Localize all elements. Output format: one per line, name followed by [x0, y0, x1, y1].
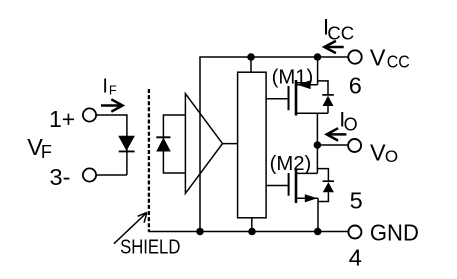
svg-text:5: 5: [350, 188, 363, 214]
transistor M2 (N-channel MOSFET): [266, 168, 318, 231]
transistor M1 (P-channel MOSFET): [266, 57, 328, 116]
svg-text:CC: CC: [387, 51, 410, 71]
wire driver bottom stub: [251, 218, 253, 232]
svg-text:V: V: [370, 45, 386, 71]
svg-text:(M1): (M1): [272, 66, 314, 88]
wire VCC left drop (crosses amplifier): [199, 57, 201, 232]
arrow ICC (supply current): [324, 41, 343, 53]
wire pin1 to LED anode: [96, 114, 127, 116]
svg-text:I: I: [102, 76, 108, 98]
LED D1 (input LED): [119, 136, 135, 151]
node junction VO: [314, 141, 322, 149]
node junction GND / driver: [248, 228, 256, 236]
svg-text:F: F: [109, 82, 117, 97]
svg-text:3-: 3-: [50, 164, 71, 190]
arrow IF (input current): [101, 99, 123, 111]
svg-text:O: O: [344, 114, 358, 134]
svg-text:CC: CC: [327, 23, 354, 43]
node junction top rail / driver: [247, 53, 255, 61]
wire M1 drain to VO node: [316, 113, 318, 145]
svg-text:F: F: [41, 142, 52, 162]
wire bottom GND rail: [148, 231, 348, 233]
terminal VCC: [348, 50, 361, 63]
wire amp output to driver: [222, 143, 238, 145]
wire VO node to terminal: [317, 144, 348, 146]
svg-text:1+: 1+: [49, 106, 75, 132]
wire pin3 to LED cathode: [96, 174, 127, 176]
node junction GND / shield drop: [196, 228, 204, 236]
arrow to shield: [114, 213, 147, 244]
svg-text:(M2): (M2): [270, 153, 312, 175]
wire driver top stub: [250, 57, 252, 72]
terminal GND: [348, 226, 361, 239]
svg-text:O: O: [385, 147, 398, 166]
arrow IO (output current): [327, 128, 347, 140]
wire VO node to M2 drain: [316, 145, 318, 173]
svg-text:SHIELD: SHIELD: [120, 237, 180, 259]
wire LED vertical: [126, 114, 128, 175]
svg-text:4: 4: [349, 244, 362, 270]
svg-text:6: 6: [349, 73, 362, 99]
node junction top rail / M1: [314, 53, 322, 61]
pin 1 terminal circle: [83, 108, 96, 121]
diode D4 (M2 body diode): [317, 169, 334, 202]
pin 3 terminal circle: [83, 168, 96, 181]
svg-text:V: V: [370, 140, 386, 166]
wire top VCC rail: [199, 56, 348, 58]
shield dashed line: [148, 89, 150, 232]
node junction GND / M2: [314, 228, 322, 236]
driver block U2: [238, 72, 267, 218]
diode D3 (M1 body diode): [318, 81, 334, 113]
terminal VO: [348, 139, 361, 152]
photodiode D2: [156, 115, 186, 173]
svg-text:GND: GND: [370, 220, 419, 246]
op-amp U1 (amplifier triangle): [185, 94, 222, 194]
